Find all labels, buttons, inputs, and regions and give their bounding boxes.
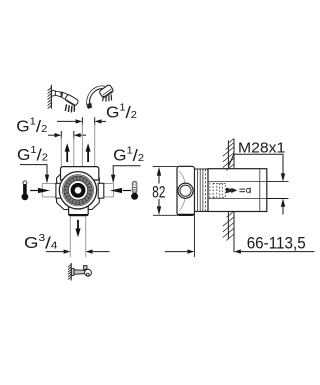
valve body octagon (57, 171, 100, 210)
hot thermometer bulb (22, 193, 29, 200)
valve left stub (56, 183, 62, 198)
cold thermometer graduations (133, 188, 137, 192)
cartridge hidden spline strip 1 (210, 183, 213, 199)
side view port boss inner circle (180, 185, 191, 196)
cartridge hidden spline barrel (213, 183, 225, 197)
wall hatching bottom segment (223, 211, 234, 240)
shower arm icon arm tube (55, 91, 61, 97)
shower arm icon neck (62, 92, 68, 100)
shower arm icon spray lines (65, 104, 74, 112)
hand shower icon inner contour (90, 89, 104, 105)
side view body block (177, 166, 195, 215)
flow arrow into left inlet (30, 188, 50, 193)
valve top block (61, 167, 99, 180)
hand shower icon handle tip (88, 104, 92, 109)
shower arm icon wall hatching (48, 88, 52, 109)
cold thermometer bulb (131, 193, 138, 200)
M28 lower arrow (281, 199, 285, 215)
bath spout icon head (85, 269, 92, 276)
valve center hole (75, 187, 82, 194)
wall hatching top segment (223, 138, 234, 170)
left inlet pipe stub (42, 184, 56, 197)
shower arm icon collar (60, 92, 63, 98)
dimension line left pipe (G1/2 left top) (48, 131, 86, 139)
cartridge equals marks (239, 189, 245, 192)
right inlet pipe stub (104, 184, 113, 197)
svg-text:82: 82 (152, 184, 165, 202)
side view cylinder bore lines (208, 182, 267, 199)
dimension line right pipe (G1/2 top right) (57, 117, 106, 125)
bath spout icon tube (74, 270, 85, 274)
flow arrow into right inlet (110, 188, 131, 193)
hand shower icon head (99, 84, 114, 98)
hand shower icon spray lines (103, 95, 112, 102)
bath spout icon knob (84, 266, 87, 270)
side view ribbed ring lines (198, 169, 206, 211)
side view ribbed ring (195, 169, 209, 211)
valve bottom block heavy edge (69, 214, 89, 216)
side view cylinder (208, 169, 267, 212)
wall lines bottom segment (228, 212, 234, 253)
82 dimension extension lines (153, 167, 178, 216)
side view port boss outer circle (178, 183, 193, 198)
bottom outlet pipe (70, 216, 85, 257)
bath spout icon wall hatching (68, 265, 71, 280)
hand shower icon handle (88, 87, 105, 107)
cold thermometer top ring (133, 182, 136, 185)
valve center black ring (73, 185, 84, 196)
top right pipe (82, 124, 94, 167)
66-113,5 dimension line (165, 249, 315, 253)
valve knurled ring (66, 178, 90, 202)
bath spout icon flange (71, 268, 74, 275)
shower arm icon wall line (50, 85, 52, 109)
cartridge spindle (226, 188, 237, 193)
flow arrow down bottom pipe (75, 220, 80, 238)
M28x1 leader (229, 154, 286, 181)
side view body block heavy bottom edge (177, 214, 194, 216)
leader left inlet (20, 165, 49, 184)
wall lines top segment (228, 139, 234, 169)
hot thermometer ring (23, 181, 27, 185)
cartridge end screw (246, 188, 250, 194)
shower arm icon head (65, 94, 79, 106)
leader right inlet (111, 166, 141, 184)
bath spout icon wall line (70, 263, 72, 281)
valve bottom block (69, 200, 89, 216)
82 dimension line with arrows (157, 167, 161, 215)
M28 extension lines (267, 182, 289, 199)
shower arm icon flange (52, 90, 56, 96)
dimension line bottom pipe (G3/4) (46, 249, 110, 253)
66-113,5 extension line (193, 212, 195, 257)
side view cylinder end cap line (259, 169, 261, 211)
side view body contour curves (179, 171, 185, 211)
flow arrow up left pipe (65, 143, 70, 162)
hot thermometer stem (23, 184, 27, 195)
valve inner circle ring (62, 175, 93, 206)
svg-text:66-113,5: 66-113,5 (247, 234, 306, 252)
top left pipe (61, 137, 74, 167)
cold thermometer stem (132, 181, 137, 193)
flow arrow up right pipe (86, 143, 91, 162)
valve right stub (98, 183, 104, 198)
valve outer circle (59, 172, 96, 209)
